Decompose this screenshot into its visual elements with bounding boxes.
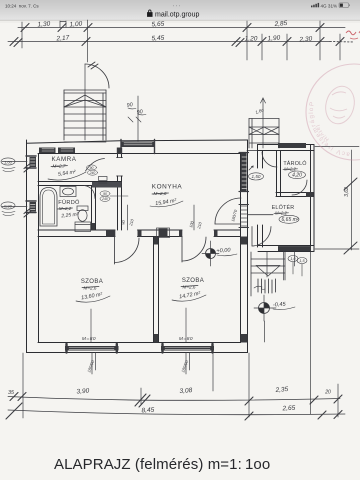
staircase centre line bbox=[84, 90, 86, 140]
staircase treads bbox=[64, 101, 106, 143]
wing right wall bbox=[311, 145, 315, 252]
door szoba1: leaf bbox=[114, 237, 116, 265]
top wall inner face bbox=[38, 153, 241, 155]
svg-text:1,5: 1,5 bbox=[299, 259, 305, 263]
bathtub bbox=[40, 188, 57, 227]
window band right wall konyha bbox=[241, 153, 247, 191]
corridor step line east of kitchen door bbox=[248, 214, 274, 216]
wing left wall bbox=[258, 145, 263, 248]
room label SZOBA 2 bbox=[172, 278, 206, 301]
door szoba2 jamb blocks bbox=[179, 230, 182, 237]
svg-text:90: 90 bbox=[126, 102, 133, 109]
door szoba2: leaf bbox=[181, 237, 183, 263]
window jambs top wall konyha bbox=[121, 140, 155, 154]
washing machine bbox=[75, 222, 91, 232]
svg-text:SZOBA: SZOBA bbox=[81, 279, 103, 285]
room label KONYHA bbox=[150, 184, 183, 208]
wall A top junction dark block bbox=[117, 148, 122, 154]
svg-text:2,17: 2,17 bbox=[55, 35, 69, 43]
svg-text:M=80: M=80 bbox=[82, 336, 96, 342]
svg-text:240: 240 bbox=[89, 171, 96, 175]
window band bottom wall szoba1 bbox=[65, 346, 119, 351]
door band right wall konyha-előtér bbox=[241, 206, 247, 226]
ticks on line D bbox=[6, 403, 342, 420]
svg-text:2,30: 2,30 bbox=[298, 36, 312, 44]
window band top wall konyha bbox=[121, 142, 155, 148]
staircase top extension line bbox=[84, 64, 86, 90]
staircase door swing arc bbox=[85, 64, 109, 88]
svg-text:KAMRA: KAMRA bbox=[51, 156, 76, 163]
stamp inner emblem bbox=[322, 83, 358, 127]
bottom wall inner face bbox=[38, 342, 241, 344]
svg-text:1,30: 1,30 bbox=[37, 21, 50, 29]
svg-text:mail.otp.group: mail.otp.group bbox=[155, 12, 199, 19]
door szoba2: swing arc bbox=[182, 237, 206, 261]
wc bbox=[77, 206, 88, 221]
svg-text:1,20: 1,20 bbox=[245, 36, 258, 43]
red handwriting top right bbox=[346, 31, 360, 39]
left wall outer face bbox=[26, 140, 28, 353]
room label FÜRDŐ bbox=[58, 199, 81, 219]
hall radiator marks bbox=[99, 177, 108, 184]
top wall outer face bbox=[27, 140, 248, 143]
svg-text:ALAPRAJZ (felmérés) m=1: 1oo: ALAPRAJZ (felmérés) m=1: 1oo bbox=[54, 456, 270, 473]
svg-text:8,45: 8,45 bbox=[141, 407, 154, 415]
divider junction dark block on wing right wall bbox=[306, 192, 314, 197]
lock icon bbox=[148, 10, 153, 16]
svg-text:20: 20 bbox=[324, 390, 331, 396]
steps squiggle note bbox=[254, 286, 265, 289]
wing divider horizontal bbox=[276, 193, 314, 197]
tick marks on line A bbox=[21, 24, 324, 32]
entrance steps outside bbox=[251, 252, 295, 296]
szoba2 window centre pointer bbox=[185, 308, 187, 342]
right wall outer face bbox=[247, 140, 249, 353]
svg-text:SZOBA: SZOBA bbox=[182, 278, 204, 284]
window caps right wall bbox=[239, 153, 249, 192]
small stair right bbox=[249, 98, 279, 148]
dimension numbers row A bbox=[37, 20, 288, 29]
step descent verticals bbox=[267, 252, 295, 280]
wing bottom wall bbox=[258, 246, 314, 252]
tick marks on line B bbox=[10, 38, 344, 47]
main staircase outline bbox=[64, 90, 106, 140]
wing top wall bbox=[258, 145, 314, 151]
svg-text:1,0: 1,0 bbox=[290, 257, 296, 261]
svg-text:240: 240 bbox=[101, 197, 108, 201]
svg-text:90: 90 bbox=[103, 192, 107, 196]
staircase winder diagonals bbox=[64, 95, 106, 107]
door tároló west: swing arc bbox=[262, 152, 277, 167]
wing right dimension line bbox=[315, 147, 359, 255]
bottom dimension line D bbox=[8, 410, 345, 415]
dotted continuation of line B bbox=[330, 41, 354, 44]
top dimension line A bbox=[18, 27, 345, 29]
bottom extension verticals bbox=[23, 353, 338, 418]
door kamra: swing arc bbox=[86, 159, 105, 172]
svg-text:1,00: 1,00 bbox=[69, 21, 82, 29]
svg-text:5,65: 5,65 bbox=[151, 21, 164, 29]
bottom wall outer face bbox=[27, 352, 248, 354]
elevation marker -0,45 bbox=[254, 295, 295, 321]
room label TÁROLÓ bbox=[283, 160, 307, 179]
right wing walls bbox=[247, 145, 314, 252]
small oval notes right of kamra wall bbox=[87, 165, 129, 202]
svg-text:4,20: 4,20 bbox=[292, 173, 302, 179]
svg-text:M=2,6: M=2,6 bbox=[84, 286, 97, 291]
room label SZOBA 1 bbox=[76, 279, 110, 302]
room label ELŐTÉR bbox=[272, 204, 299, 223]
svg-text:90: 90 bbox=[90, 166, 94, 170]
svg-text:KONYHA: KONYHA bbox=[152, 184, 183, 191]
dimension numbers row B bbox=[55, 35, 312, 44]
chimney dimension pointer line bbox=[137, 96, 139, 141]
flue box on interior wall bbox=[159, 229, 168, 238]
door előtér west: leaf bbox=[251, 227, 253, 247]
stamp outer circle bbox=[306, 64, 360, 160]
walls bbox=[27, 140, 248, 353]
window band hatch slits bbox=[31, 143, 309, 349]
door szoba1: dimension pointer bbox=[127, 205, 129, 230]
window post lines szoba2 bbox=[186, 353, 190, 375]
door konyha-előtér: leaf bbox=[215, 223, 241, 225]
washbasin bbox=[60, 187, 76, 197]
elevation marker +0,00 bbox=[202, 241, 237, 266]
ticks on line C bbox=[10, 393, 342, 408]
svg-text:···: ··· bbox=[173, 4, 182, 10]
level note 1,50 oval bbox=[249, 166, 264, 180]
szoba1 window centre pointer bbox=[90, 309, 92, 342]
wing connector walls bbox=[247, 150, 258, 152]
door előtér west: swing arc bbox=[252, 227, 271, 247]
door tároló south: swing arc bbox=[292, 180, 307, 195]
small tick pair above staircase bbox=[88, 62, 98, 69]
svg-text:2,65: 2,65 bbox=[281, 405, 295, 413]
chimney annotation 90/90 bbox=[126, 102, 146, 122]
svg-text:10:24 nov. 7. Cs: 10:24 nov. 7. Cs bbox=[5, 4, 39, 9]
bottom dimension numbers row D bbox=[141, 405, 295, 415]
interior wall hall-konyha (A) bbox=[118, 153, 122, 230]
svg-text:1,50: 1,50 bbox=[252, 174, 261, 179]
vertical extension right of steps bbox=[310, 252, 312, 414]
right wall inner face bbox=[240, 153, 242, 343]
svg-text:-0,45: -0,45 bbox=[273, 302, 287, 309]
window band bottom wall szoba2 bbox=[161, 346, 214, 351]
steps hatch patch bbox=[258, 279, 276, 293]
svg-text:4G 31%: 4G 31% bbox=[321, 3, 338, 8]
steps direction triangle bbox=[256, 266, 280, 277]
svg-text:2,35: 2,35 bbox=[274, 386, 289, 394]
entrance band wing bottom wall bbox=[278, 246, 311, 251]
interior wall fürdő east (B) bbox=[92, 186, 96, 231]
left wall inner face bbox=[38, 154, 40, 343]
window band left wall fürdő bbox=[30, 202, 37, 212]
svg-text:5,45: 5,45 bbox=[151, 35, 164, 43]
signal bars icon bbox=[311, 3, 319, 7]
small stair centre line bbox=[262, 98, 264, 148]
window sill oval label left 1 bbox=[1, 158, 27, 172]
svg-text:3,90: 3,90 bbox=[76, 388, 89, 396]
long vertical below entrance bbox=[264, 321, 266, 342]
door konyha-előtér: swing arc bbox=[215, 198, 241, 224]
svg-text:+0,00: +0,00 bbox=[216, 247, 231, 254]
svg-text:1,90: 1,90 bbox=[267, 35, 280, 43]
svg-text:0,90: 0,90 bbox=[4, 203, 13, 208]
svg-text:35: 35 bbox=[8, 390, 15, 396]
interior wall szoba divider bbox=[154, 237, 159, 343]
window post lines szoba1 bbox=[92, 353, 96, 375]
bottom dimension line C bbox=[8, 397, 340, 401]
small stair arrow head bbox=[261, 98, 266, 103]
battery icon bbox=[339, 3, 350, 8]
interior wall kamra-fürdő divider bbox=[38, 182, 122, 186]
wing divider vertical bbox=[277, 151, 281, 197]
window band wing top wall bbox=[278, 143, 306, 148]
bottom dimension numbers row C bbox=[8, 386, 331, 396]
stamp group bbox=[306, 64, 360, 160]
svg-text:M=80: M=80 bbox=[179, 336, 193, 342]
small bracket mark between 1,30 and 1,00 bbox=[60, 21, 66, 27]
window band top wall kamra bbox=[39, 148, 56, 154]
svg-text:FÜRDŐ: FÜRDŐ bbox=[58, 199, 80, 206]
door szoba1 jamb blocks bbox=[106, 230, 115, 237]
small step level notes bbox=[288, 256, 307, 277]
window sill oval label left 2 bbox=[1, 202, 27, 216]
dimension extension verticals top bbox=[22, 20, 340, 62]
door szoba2: dimension pointer bbox=[193, 205, 195, 230]
svg-text:3,62: 3,62 bbox=[344, 187, 350, 197]
small stair x-brace bbox=[249, 127, 279, 135]
top dimension line B bbox=[8, 41, 330, 43]
door szoba1: swing arc bbox=[115, 238, 140, 263]
window band left wall kamra bbox=[30, 157, 37, 167]
door fürdő: swing arc from divider bbox=[84, 186, 95, 199]
room label KAMRA bbox=[48, 156, 86, 180]
svg-text:M=2,6: M=2,6 bbox=[183, 285, 196, 290]
svg-text:3,08: 3,08 bbox=[179, 387, 192, 395]
interior wall horizontal (north rooms / szoba) bbox=[38, 230, 241, 237]
dark junction blocks on main right wall bbox=[241, 237, 248, 245]
svg-text:2,85: 2,85 bbox=[273, 20, 288, 28]
